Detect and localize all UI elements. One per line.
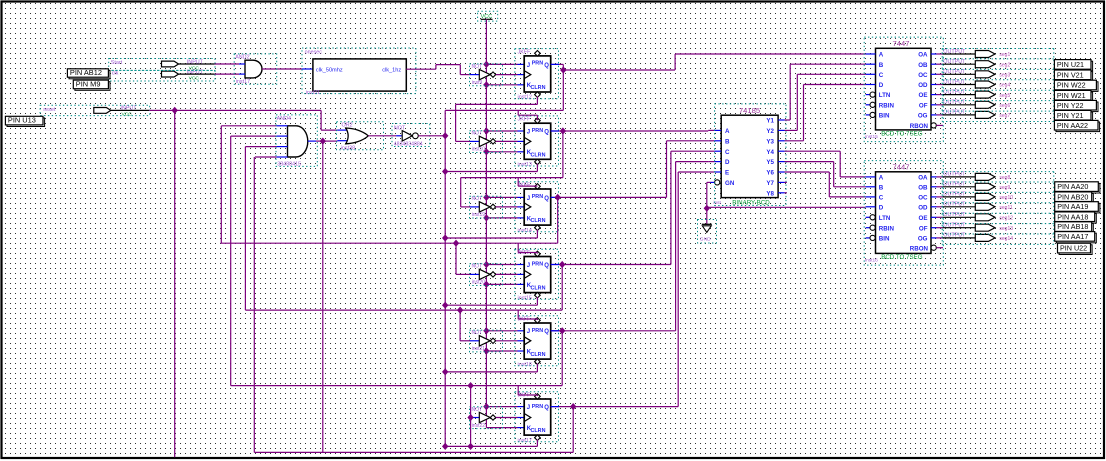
svg-text:NOT: NOT bbox=[472, 196, 483, 202]
svg-text:INPUT: INPUT bbox=[120, 105, 137, 111]
svg-text:Q: Q bbox=[544, 129, 549, 135]
svg-text:CLRN: CLRN bbox=[531, 428, 546, 434]
svg-text:PRN: PRN bbox=[532, 261, 543, 267]
svg-text:JKFF: JKFF bbox=[518, 49, 532, 55]
svg-text:PIN Y22: PIN Y22 bbox=[1057, 101, 1084, 110]
svg-text:inst20: inst20 bbox=[472, 280, 486, 286]
svg-text:NOT: NOT bbox=[472, 64, 483, 70]
svg-text:B: B bbox=[725, 138, 730, 145]
svg-text:Q: Q bbox=[544, 63, 549, 69]
svg-text:PIN AB20: PIN AB20 bbox=[1057, 192, 1088, 201]
svg-text:inst22: inst22 bbox=[472, 423, 486, 429]
svg-text:VCC: VCC bbox=[122, 111, 133, 117]
svg-text:7447: 7447 bbox=[893, 163, 910, 172]
svg-text:PIN AA17: PIN AA17 bbox=[1057, 232, 1088, 241]
svg-text:seg14: seg14 bbox=[999, 236, 1013, 242]
svg-text:inst16: inst16 bbox=[865, 257, 878, 263]
svg-text:seg12: seg12 bbox=[999, 216, 1013, 222]
svg-text:CLRN: CLRN bbox=[531, 218, 546, 224]
svg-text:A: A bbox=[879, 52, 884, 59]
svg-text:PIN W21: PIN W21 bbox=[1057, 91, 1086, 100]
svg-text:CLRN: CLRN bbox=[531, 152, 546, 158]
svg-text:seg9: seg9 bbox=[999, 185, 1010, 191]
svg-text:OC: OC bbox=[918, 72, 928, 79]
svg-text:AND4: AND4 bbox=[277, 116, 291, 122]
svg-text:CLRN: CLRN bbox=[531, 85, 546, 91]
svg-text:inst17: inst17 bbox=[518, 438, 532, 444]
svg-text:JKFF: JKFF bbox=[518, 182, 532, 188]
svg-text:inst16: inst16 bbox=[518, 362, 532, 368]
svg-text:A: A bbox=[725, 128, 730, 135]
svg-text:PIN W22: PIN W22 bbox=[1057, 81, 1086, 90]
svg-text:AND2: AND2 bbox=[235, 55, 249, 61]
svg-text:J: J bbox=[527, 129, 530, 135]
svg-text:OUTPUT: OUTPUT bbox=[943, 49, 966, 55]
svg-text:OUTPUT: OUTPUT bbox=[943, 59, 966, 65]
svg-text:NOT: NOT bbox=[394, 126, 406, 132]
svg-text:LTN: LTN bbox=[879, 215, 891, 222]
svg-text:seg10: seg10 bbox=[999, 195, 1013, 201]
svg-text:OD: OD bbox=[918, 204, 928, 211]
svg-text:PIN AA19: PIN AA19 bbox=[1057, 202, 1088, 211]
svg-text:OF: OF bbox=[919, 102, 928, 109]
svg-text:seg2: seg2 bbox=[999, 62, 1010, 68]
svg-text:NOT: NOT bbox=[472, 264, 483, 270]
svg-text:J: J bbox=[527, 196, 530, 202]
svg-text:Q: Q bbox=[544, 196, 549, 202]
svg-text:A: A bbox=[879, 175, 884, 182]
svg-text:RBIN: RBIN bbox=[879, 102, 895, 109]
svg-text:PIN U22: PIN U22 bbox=[1060, 244, 1087, 253]
svg-text:inst10: inst10 bbox=[472, 147, 486, 153]
svg-text:PRN: PRN bbox=[532, 128, 543, 134]
svg-text:PIN V21: PIN V21 bbox=[1057, 70, 1084, 79]
svg-text:PIN AA22: PIN AA22 bbox=[1057, 121, 1088, 130]
svg-text:onesec: onesec bbox=[305, 50, 323, 56]
svg-text:OD: OD bbox=[918, 82, 928, 89]
svg-text:PIN AB18: PIN AB18 bbox=[1057, 222, 1088, 231]
svg-text:OE: OE bbox=[919, 215, 928, 222]
svg-text:OG: OG bbox=[918, 236, 928, 243]
svg-text:GN: GN bbox=[725, 180, 735, 187]
svg-text:inst12: inst12 bbox=[518, 95, 532, 101]
svg-text:PIN U13: PIN U13 bbox=[8, 116, 36, 125]
svg-text:inst13: inst13 bbox=[518, 162, 532, 168]
svg-text:OA: OA bbox=[918, 175, 928, 182]
svg-text:seg8: seg8 bbox=[999, 175, 1010, 181]
svg-text:seg6: seg6 bbox=[999, 103, 1010, 109]
svg-text:Y8: Y8 bbox=[766, 190, 774, 197]
svg-text:PIN AA18: PIN AA18 bbox=[1057, 212, 1088, 221]
svg-text:J: J bbox=[527, 329, 530, 335]
svg-text:CLRN: CLRN bbox=[531, 352, 546, 358]
svg-text:OUTPUT: OUTPUT bbox=[943, 172, 966, 178]
svg-text:OR2: OR2 bbox=[342, 123, 353, 129]
svg-text:E: E bbox=[725, 170, 729, 177]
svg-text:PRN: PRN bbox=[532, 404, 543, 410]
svg-text:PIN U21: PIN U21 bbox=[1057, 60, 1084, 69]
svg-text:PRN: PRN bbox=[532, 61, 543, 67]
svg-text:Q: Q bbox=[544, 329, 549, 335]
svg-text:PRN: PRN bbox=[532, 194, 543, 200]
svg-text:seg5: seg5 bbox=[999, 93, 1010, 99]
svg-text:OB: OB bbox=[918, 184, 928, 191]
svg-text:OC: OC bbox=[918, 195, 928, 202]
svg-text:GND: GND bbox=[700, 237, 711, 243]
svg-text:clk_1hz: clk_1hz bbox=[382, 67, 401, 73]
svg-text:RBON: RBON bbox=[910, 245, 929, 252]
svg-text:INPUT: INPUT bbox=[187, 59, 204, 65]
svg-text:inst9: inst9 bbox=[472, 80, 483, 86]
svg-text:Y2: Y2 bbox=[766, 128, 774, 135]
svg-text:74185: 74185 bbox=[739, 106, 760, 115]
svg-text:C: C bbox=[879, 72, 884, 79]
svg-text:LTN: LTN bbox=[879, 92, 891, 99]
svg-text:BCD TO 7SEG: BCD TO 7SEG bbox=[881, 131, 923, 138]
svg-text:OE: OE bbox=[919, 92, 928, 99]
svg-text:7447: 7447 bbox=[893, 39, 910, 48]
svg-text:clk_50mhz: clk_50mhz bbox=[316, 67, 343, 73]
svg-text:Y6: Y6 bbox=[766, 170, 774, 177]
svg-text:inst21: inst21 bbox=[472, 346, 486, 352]
svg-text:inst14: inst14 bbox=[518, 228, 532, 234]
svg-text:PRN: PRN bbox=[532, 328, 543, 334]
svg-text:OA: OA bbox=[918, 52, 928, 59]
svg-text:PIN Y21: PIN Y21 bbox=[1057, 111, 1084, 120]
svg-text:Y7: Y7 bbox=[766, 180, 774, 187]
svg-text:Y3: Y3 bbox=[766, 138, 774, 145]
svg-text:seg1: seg1 bbox=[999, 52, 1010, 58]
svg-text:PIN AA20: PIN AA20 bbox=[1057, 182, 1088, 191]
svg-text:NOT: NOT bbox=[472, 131, 483, 137]
svg-text:reset: reset bbox=[43, 107, 55, 113]
svg-text:C: C bbox=[879, 195, 884, 202]
svg-text:PIN AB12: PIN AB12 bbox=[70, 68, 102, 77]
svg-text:D: D bbox=[879, 82, 884, 89]
svg-text:J: J bbox=[527, 405, 530, 411]
svg-text:inst15: inst15 bbox=[865, 134, 878, 140]
svg-text:seg7: seg7 bbox=[999, 113, 1010, 119]
svg-text:inst38: inst38 bbox=[341, 146, 355, 152]
svg-text:C: C bbox=[725, 149, 730, 156]
svg-text:NOT: NOT bbox=[472, 407, 483, 413]
svg-text:inst19: inst19 bbox=[472, 212, 486, 218]
svg-text:NOT: NOT bbox=[472, 330, 483, 336]
svg-text:Y1: Y1 bbox=[766, 118, 774, 125]
svg-text:OB: OB bbox=[918, 62, 928, 69]
svg-text:seg3: seg3 bbox=[999, 73, 1010, 79]
svg-text:OG: OG bbox=[918, 113, 928, 120]
svg-text:seg11: seg11 bbox=[999, 205, 1012, 211]
svg-text:B: B bbox=[879, 62, 884, 69]
svg-text:Q: Q bbox=[544, 263, 549, 269]
svg-text:BIN: BIN bbox=[879, 236, 890, 243]
svg-text:D: D bbox=[725, 159, 730, 166]
svg-text:clk: clk bbox=[112, 71, 119, 77]
svg-text:J: J bbox=[527, 263, 530, 269]
svg-text:RBON: RBON bbox=[910, 123, 929, 130]
svg-text:Y4: Y4 bbox=[766, 149, 774, 156]
svg-text:seg13: seg13 bbox=[999, 226, 1013, 232]
svg-text:OUTPUT: OUTPUT bbox=[943, 69, 966, 75]
svg-text:PIN M9: PIN M9 bbox=[76, 80, 101, 89]
svg-text:CLRN: CLRN bbox=[531, 286, 546, 292]
svg-text:D: D bbox=[879, 204, 884, 211]
svg-text:Q: Q bbox=[544, 405, 549, 411]
svg-text:RBIN: RBIN bbox=[879, 225, 895, 232]
svg-text:seg4: seg4 bbox=[999, 83, 1010, 89]
svg-text:BIN: BIN bbox=[879, 113, 890, 120]
svg-text:B: B bbox=[879, 184, 884, 191]
svg-text:Start: Start bbox=[111, 60, 123, 66]
svg-text:BCD TO 7SEG: BCD TO 7SEG bbox=[881, 254, 923, 261]
svg-text:OF: OF bbox=[919, 225, 928, 232]
svg-text:JKFF: JKFF bbox=[518, 117, 532, 123]
svg-text:Y5: Y5 bbox=[766, 159, 774, 166]
svg-text:J: J bbox=[527, 63, 530, 69]
svg-text:inst15: inst15 bbox=[518, 295, 532, 301]
